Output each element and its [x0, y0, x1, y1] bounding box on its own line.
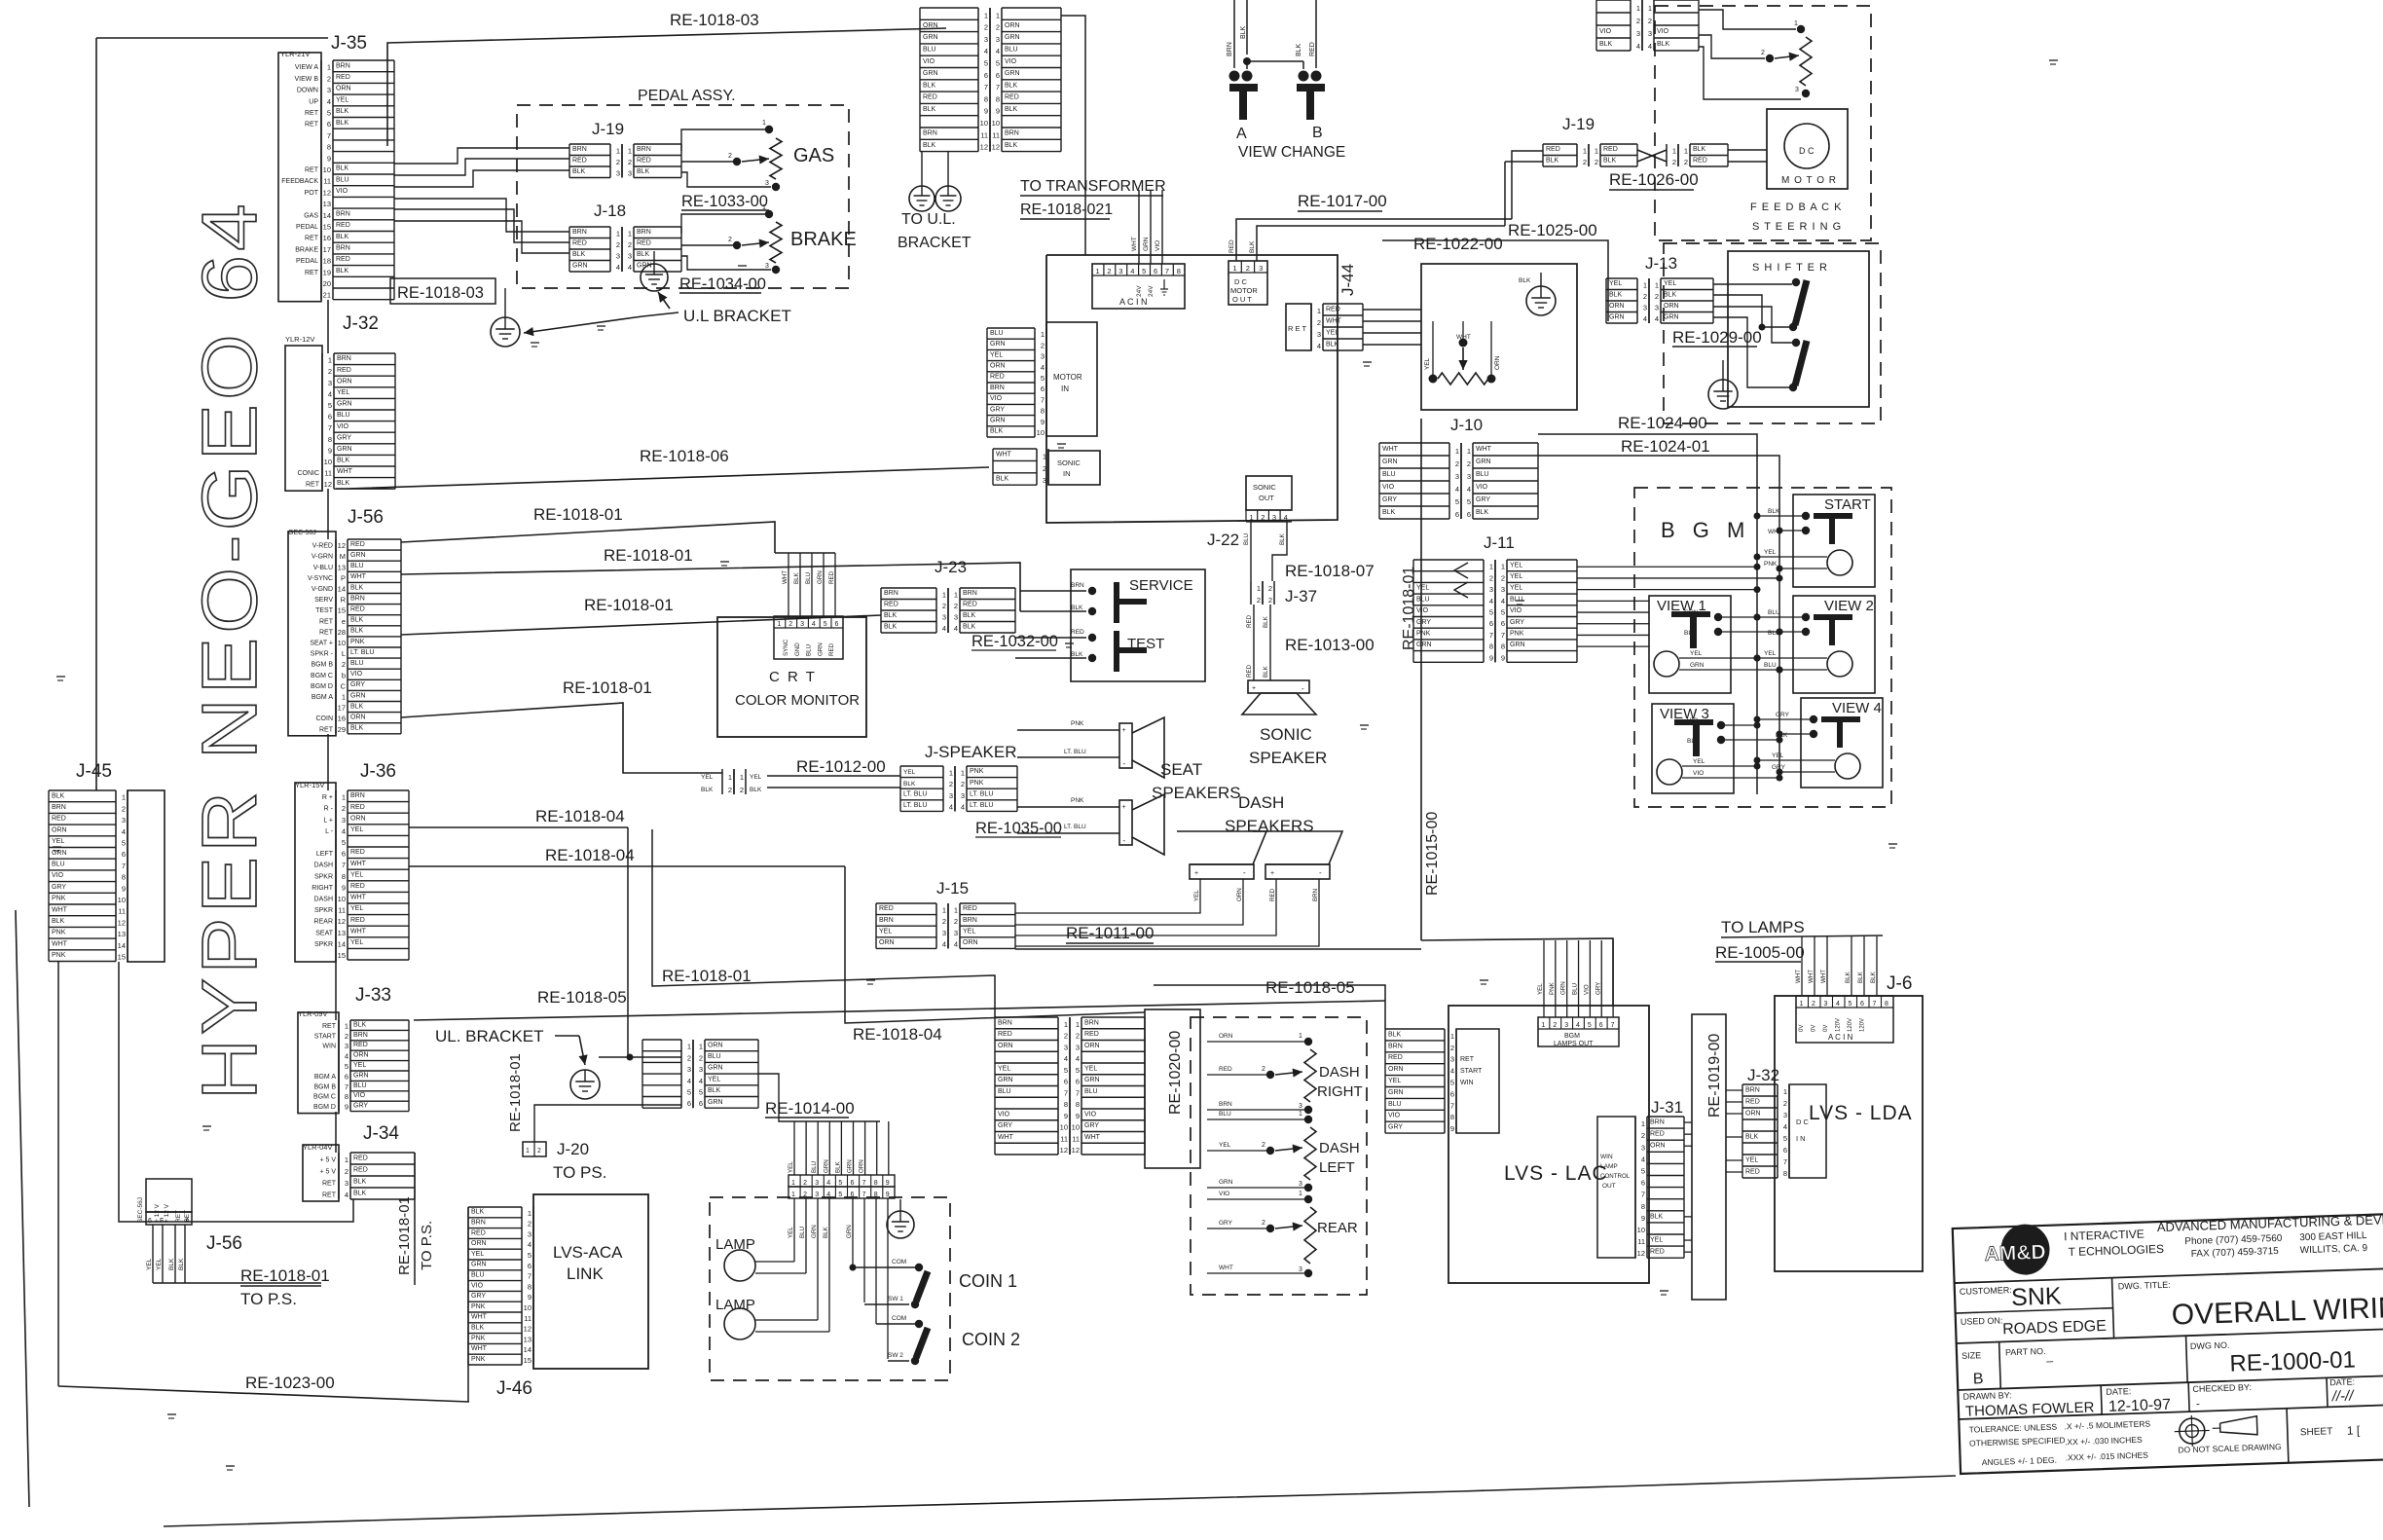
svg-text:D C: D C — [1234, 277, 1248, 286]
connector SONIC OUT J-22 — [1246, 476, 1292, 510]
svg-text:BLK: BLK — [336, 234, 349, 240]
svg-text:D C: D C — [1796, 1118, 1810, 1126]
svg-text:TO TRANSFORMER: TO TRANSFORMER — [1020, 178, 1166, 195]
svg-text:VIO: VIO — [1583, 984, 1590, 995]
svg-text:9: 9 — [1501, 653, 1505, 662]
svg-text:RET: RET — [319, 618, 334, 625]
svg-text:4: 4 — [954, 624, 958, 633]
svg-text:2: 2 — [342, 804, 346, 813]
svg-text:0V: 0V — [1823, 1025, 1829, 1032]
svg-text:BLK: BLK — [1745, 1133, 1759, 1140]
svg-text:5: 5 — [1641, 1167, 1645, 1176]
svg-text:b: b — [342, 671, 346, 679]
svg-text:ORN: ORN — [998, 1043, 1013, 1049]
svg-text:6: 6 — [1599, 1022, 1603, 1029]
wire J-45 drop right to frame — [119, 962, 353, 1222]
svg-text:1: 1 — [996, 11, 1000, 19]
svg-text:BLK: BLK — [168, 1258, 175, 1270]
svg-text:1: 1 — [616, 230, 620, 238]
svg-text:1: 1 — [728, 773, 732, 782]
svg-text:BGM A: BGM A — [314, 1074, 337, 1081]
svg-text:I NTERACTIVE: I NTERACTIVE — [2064, 1228, 2145, 1244]
svg-text:_: _ — [2045, 1349, 2053, 1363]
svg-text:LT. BLU: LT. BLU — [1064, 824, 1086, 830]
svg-text:RE-1022-00: RE-1022-00 — [1413, 235, 1503, 253]
svg-text:GAS: GAS — [304, 212, 318, 219]
svg-text:3: 3 — [765, 180, 769, 187]
svg-text:VIO: VIO — [336, 188, 348, 195]
svg-text:VIEW 4: VIEW 4 — [1832, 700, 1882, 716]
svg-text:BLK: BLK — [336, 165, 349, 172]
svg-text:YEL: YEL — [350, 939, 363, 946]
svg-text:13: 13 — [524, 1335, 532, 1343]
svg-text:WIN: WIN — [1460, 1080, 1474, 1086]
svg-text:YEL: YEL — [1388, 1078, 1401, 1084]
svg-text:RE-1014-00: RE-1014-00 — [765, 1099, 855, 1118]
svg-text:0V: 0V — [1812, 1025, 1817, 1032]
svg-text:6: 6 — [148, 1218, 152, 1225]
box RE-1020-00 harness — [1145, 1009, 1200, 1168]
svg-text:WHT: WHT — [52, 906, 68, 913]
svg-text:BLU: BLU — [52, 861, 65, 867]
svg-text:BLU: BLU — [353, 1082, 367, 1089]
connector steering 4-pin — [1630, 0, 1631, 51]
svg-text:RE-1018-06: RE-1018-06 — [640, 447, 729, 465]
svg-text:3: 3 — [1118, 267, 1122, 275]
svg-text:1: 1 — [1076, 1020, 1080, 1029]
svg-text:REAR: REAR — [1317, 1220, 1358, 1236]
svg-text:USED ON:: USED ON: — [1961, 1315, 2003, 1326]
svg-text:7: 7 — [1450, 1101, 1454, 1110]
switch COIN 2 — [876, 1323, 915, 1325]
svg-text:13: 13 — [323, 200, 331, 208]
svg-text:1: 1 — [954, 591, 958, 600]
svg-text:BLK: BLK — [750, 787, 762, 793]
svg-text:U.L BRACKET: U.L BRACKET — [683, 307, 791, 325]
svg-text:P: P — [341, 573, 346, 582]
svg-text:RE-1005-00: RE-1005-00 — [1715, 943, 1805, 962]
assembly FEEDBACK STEERING dashed box — [1655, 6, 1871, 240]
svg-text:3: 3 — [815, 1180, 819, 1187]
svg-text:RIGHT: RIGHT — [312, 885, 334, 892]
svg-text:GRN: GRN — [1382, 458, 1398, 465]
svg-text:1: 1 — [740, 773, 744, 782]
svg-text:GRN: GRN — [817, 570, 824, 584]
wire trunk to LVS-LAC — [1421, 938, 1613, 1006]
svg-text:HYPER NEO-GEO 64: HYPER NEO-GEO 64 — [186, 200, 273, 1100]
svg-text:5: 5 — [528, 1251, 532, 1260]
svg-text:RE-1018-03: RE-1018-03 — [670, 11, 759, 29]
svg-text:-: - — [1243, 868, 1246, 877]
svg-text:28: 28 — [338, 628, 346, 637]
svg-text:J-15: J-15 — [936, 879, 969, 898]
svg-text:RE-1029-00: RE-1029-00 — [1672, 328, 1762, 347]
svg-text:J-23: J-23 — [935, 558, 967, 576]
svg-text:DASH: DASH — [1319, 1140, 1360, 1156]
svg-text:BLK: BLK — [963, 612, 976, 619]
svg-text:PNK: PNK — [970, 768, 984, 775]
wire BGM lamps feed — [1543, 940, 1545, 1017]
svg-text:YEL: YEL — [1326, 329, 1338, 336]
svg-text:5: 5 — [345, 1062, 348, 1071]
svg-text:YEL: YEL — [1537, 983, 1544, 995]
svg-text:5: 5 — [342, 838, 346, 847]
svg-text:ORN: ORN — [336, 86, 351, 92]
svg-text:3: 3 — [1043, 476, 1046, 485]
svg-text:BLK: BLK — [337, 480, 350, 487]
svg-text:RE-1020-00: RE-1020-00 — [1167, 1031, 1184, 1115]
connector LVS-ACA 15-pin — [468, 1206, 522, 1208]
button VIEW 4 — [1801, 698, 1883, 788]
connector 2-pin speaker plug — [721, 769, 723, 794]
svg-text:PNK: PNK — [350, 639, 365, 645]
box SERVICE TEST — [1071, 569, 1205, 681]
svg-text:GRN: GRN — [708, 1099, 723, 1106]
svg-text:4: 4 — [1655, 314, 1659, 323]
svg-text:BLU: BLU — [1005, 47, 1018, 54]
svg-text:12: 12 — [324, 480, 332, 489]
svg-text:1: 1 — [1043, 452, 1046, 460]
button VIEW 2 — [1793, 596, 1875, 693]
ground coin door — [887, 1211, 914, 1238]
svg-text:5: 5 — [824, 621, 827, 628]
svg-text:1: 1 — [762, 120, 766, 127]
svg-text:BLK: BLK — [923, 82, 936, 89]
connector MOTOR IN — [1046, 322, 1097, 436]
svg-text:RED: RED — [637, 240, 651, 247]
svg-text:9: 9 — [122, 884, 126, 893]
svg-text:2: 2 — [1262, 1142, 1265, 1149]
svg-text:2: 2 — [1783, 1099, 1787, 1108]
svg-text:J-18: J-18 — [594, 202, 626, 220]
connector 9-pin coin header — [788, 1175, 895, 1187]
svg-text:J-34: J-34 — [363, 1123, 399, 1144]
svg-text:3: 3 — [1648, 29, 1652, 38]
svg-text:2: 2 — [1583, 158, 1587, 166]
svg-text:J-SPEAKER: J-SPEAKER — [925, 743, 1016, 761]
wire left frame vertical — [95, 38, 97, 790]
svg-text:YEL: YEL — [337, 389, 349, 396]
svg-text:6: 6 — [1154, 267, 1157, 275]
svg-text:4: 4 — [961, 802, 965, 811]
svg-text:2: 2 — [954, 602, 958, 610]
svg-text:PNK: PNK — [1071, 797, 1084, 804]
svg-text:4: 4 — [996, 47, 1000, 55]
svg-text:YEL: YEL — [963, 928, 975, 935]
svg-text:BLK: BLK — [1546, 158, 1559, 165]
svg-text:9: 9 — [1076, 1112, 1080, 1120]
svg-text:YEL: YEL — [708, 1076, 720, 1082]
svg-text:VIEW CHANGE: VIEW CHANGE — [1238, 144, 1345, 161]
svg-text:1: 1 — [1317, 307, 1321, 315]
svg-text:3: 3 — [1317, 330, 1321, 339]
svg-text:7: 7 — [528, 1272, 532, 1281]
svg-text:GRN: GRN — [998, 1077, 1013, 1083]
svg-text:BLK: BLK — [1296, 43, 1302, 56]
svg-text:4: 4 — [1576, 1022, 1580, 1029]
svg-text:300 EAST HILL: 300 EAST HILL — [2299, 1230, 2367, 1243]
svg-text:BRN: BRN — [336, 62, 350, 69]
svg-text:RE-1018-04: RE-1018-04 — [545, 846, 635, 864]
svg-text:LVS-ACA: LVS-ACA — [553, 1243, 623, 1262]
svg-text:12: 12 — [338, 917, 346, 926]
svg-text:2: 2 — [1655, 292, 1659, 301]
svg-text:PEDAL: PEDAL — [296, 258, 318, 265]
svg-text:BLU: BLU — [811, 1161, 818, 1173]
svg-text:4: 4 — [1643, 314, 1647, 323]
svg-text:11: 11 — [980, 130, 988, 139]
svg-text:GRN: GRN — [811, 1225, 818, 1238]
svg-text:6: 6 — [1783, 1146, 1787, 1155]
svg-text:RET: RET — [1460, 1056, 1475, 1063]
wire RET to RE-1022 box — [1363, 309, 1421, 311]
svg-text:4: 4 — [1317, 342, 1321, 350]
svg-text:5: 5 — [328, 401, 332, 410]
svg-text:ORN: ORN — [52, 826, 67, 833]
svg-text:YEL: YEL — [998, 1065, 1010, 1072]
svg-text:-: - — [1301, 684, 1304, 693]
svg-text:BLU: BLU — [337, 412, 350, 419]
wire SEC-56J drops — [152, 1225, 154, 1283]
svg-text:RED: RED — [828, 642, 835, 656]
svg-text:WHT: WHT — [1820, 970, 1827, 983]
svg-text:3: 3 — [327, 86, 331, 94]
wire page bottom edge — [164, 1476, 1956, 1526]
svg-text:1: 1 — [1672, 147, 1676, 156]
svg-text:YEL: YEL — [471, 1251, 484, 1258]
connector J-SPEAKER — [942, 766, 944, 811]
svg-text:5: 5 — [1041, 374, 1045, 383]
svg-text:PNK: PNK — [471, 1335, 486, 1341]
svg-text:BLK: BLK — [1657, 41, 1670, 48]
svg-text:RED: RED — [1071, 629, 1084, 636]
svg-text:A: A — [185, 1218, 190, 1225]
svg-text:VIO: VIO — [1599, 28, 1612, 35]
svg-text:RED: RED — [350, 605, 365, 612]
svg-text:BRN: BRN — [1227, 42, 1233, 56]
svg-text:1: 1 — [954, 906, 958, 915]
svg-text:2: 2 — [1648, 17, 1652, 25]
svg-text:1: 1 — [1800, 1001, 1804, 1008]
svg-text:GRN: GRN — [823, 1159, 829, 1173]
wire transformer leads — [1138, 190, 1140, 264]
svg-text:RED: RED — [350, 541, 365, 548]
svg-text:4: 4 — [812, 621, 816, 628]
svg-text:RE-1018-01: RE-1018-01 — [662, 967, 752, 985]
svg-text:GRN: GRN — [708, 1065, 723, 1072]
svg-text:-: - — [2196, 1397, 2200, 1411]
svg-text:2: 2 — [537, 1148, 541, 1155]
svg-text:BLU: BLU — [471, 1271, 485, 1278]
svg-text:PEDAL ASSY.: PEDAL ASSY. — [638, 88, 736, 104]
svg-text:BLU: BLU — [1084, 1088, 1098, 1095]
svg-text:GRY: GRY — [1416, 619, 1431, 626]
assembly coin door dashed box — [710, 1197, 950, 1380]
svg-text:SEC-56J: SEC-56J — [137, 1197, 144, 1223]
svg-text:3: 3 — [954, 929, 958, 937]
svg-text:2: 2 — [1501, 573, 1505, 582]
svg-text:1: 1 — [345, 1155, 348, 1164]
svg-text:DATE:: DATE: — [2329, 1376, 2355, 1387]
svg-text:1: 1 — [526, 1148, 530, 1155]
svg-text:20: 20 — [323, 279, 331, 288]
svg-text:1: 1 — [1064, 1020, 1068, 1029]
svg-text:COM: COM — [892, 1259, 906, 1265]
svg-text:BLU: BLU — [708, 1053, 721, 1060]
svg-text:GRN: GRN — [990, 341, 1006, 348]
svg-text:J-32: J-32 — [343, 313, 379, 334]
svg-text:6: 6 — [1467, 510, 1471, 519]
svg-text:VIO: VIO — [337, 423, 349, 430]
svg-text:13: 13 — [118, 930, 126, 938]
svg-text:BLK: BLK — [336, 268, 349, 275]
svg-text:IN: IN — [1063, 469, 1071, 478]
svg-text:PNK: PNK — [1416, 630, 1431, 637]
svg-text:GRN: GRN — [350, 692, 366, 699]
svg-text:MOTOR: MOTOR — [1053, 373, 1082, 382]
svg-text:5: 5 — [1064, 1066, 1068, 1075]
svg-text:1: 1 — [984, 11, 988, 19]
svg-text:BLU: BLU — [799, 1227, 806, 1238]
svg-text:BLK: BLK — [336, 120, 349, 127]
svg-text:7: 7 — [1041, 395, 1045, 404]
svg-text:PNK: PNK — [1071, 720, 1084, 727]
svg-text:BRN: BRN — [52, 804, 66, 811]
wire J-22 to J-37 — [1250, 522, 1252, 581]
svg-text:GRN: GRN — [1560, 981, 1567, 995]
svg-text:2: 2 — [1246, 264, 1250, 273]
svg-text:BLK: BLK — [1650, 1213, 1664, 1220]
svg-text:BRN: BRN — [1005, 130, 1019, 137]
svg-text:RET: RET — [319, 629, 334, 636]
svg-text:VIO: VIO — [1219, 1191, 1229, 1197]
svg-text:11: 11 — [524, 1314, 532, 1323]
svg-text:2: 2 — [942, 917, 946, 926]
wire harness RE-1024-01 — [1538, 456, 1779, 769]
svg-text:CUSTOMER:: CUSTOMER: — [1960, 1285, 2012, 1297]
svg-text:YEL: YEL — [1510, 573, 1522, 580]
svg-text:10: 10 — [1037, 428, 1045, 437]
svg-text:DWG. TITLE:: DWG. TITLE: — [2118, 1280, 2171, 1292]
svg-text:5: 5 — [1467, 497, 1471, 506]
svg-text:ORN: ORN — [353, 1052, 369, 1059]
svg-text:3: 3 — [954, 613, 958, 622]
svg-text:2: 2 — [1761, 50, 1765, 56]
svg-text:8: 8 — [874, 1180, 878, 1187]
svg-text:RED: RED — [52, 816, 66, 823]
svg-text:5: 5 — [687, 1088, 691, 1097]
svg-text:6: 6 — [835, 621, 839, 628]
svg-text:BLK: BLK — [1005, 142, 1018, 149]
svg-text:1: 1 — [342, 793, 346, 802]
svg-text:2: 2 — [345, 1032, 348, 1041]
svg-text:BLK: BLK — [963, 624, 976, 631]
svg-text:4: 4 — [345, 1191, 348, 1199]
svg-text:2: 2 — [1268, 596, 1272, 605]
svg-text:6: 6 — [528, 1262, 532, 1270]
svg-text:19: 19 — [323, 268, 331, 276]
svg-text:RED: RED — [1309, 42, 1316, 56]
svg-text:YEL: YEL — [1193, 890, 1200, 901]
svg-text:7: 7 — [1783, 1157, 1787, 1166]
svg-text:BLK: BLK — [1388, 1031, 1402, 1038]
svg-text:9: 9 — [327, 154, 331, 163]
svg-text:SPEAKERS: SPEAKERS — [1152, 784, 1241, 802]
svg-text:YEL: YEL — [1745, 1156, 1758, 1163]
svg-text:J-37: J-37 — [1285, 587, 1317, 605]
connector AC IN (LVS-LDA) — [1796, 996, 1893, 1043]
svg-text:B G M: B G M — [1661, 518, 1750, 542]
svg-text:8: 8 — [1501, 642, 1505, 651]
svg-text:ORN: ORN — [1219, 1033, 1233, 1040]
svg-text:RE-1018-01: RE-1018-01 — [584, 596, 674, 614]
svg-text:J-20: J-20 — [557, 1140, 589, 1158]
svg-text:S T E E R I N G: S T E E R I N G — [1752, 221, 1842, 233]
svg-text:BLK: BLK — [350, 617, 364, 624]
svg-text:2: 2 — [1641, 1131, 1645, 1140]
motor DC feedback steering — [1767, 109, 1848, 189]
svg-text:A C I N: A C I N — [1119, 297, 1148, 307]
svg-text:RED: RED — [350, 849, 365, 856]
svg-text:BLK: BLK — [884, 624, 898, 631]
svg-text:RED: RED — [1084, 1031, 1099, 1038]
svg-text:L -: L - — [325, 828, 334, 835]
svg-text:RE-1011-00: RE-1011-00 — [1066, 924, 1154, 942]
svg-text:BGM D: BGM D — [311, 683, 333, 690]
svg-text:GRY: GRY — [1219, 1220, 1233, 1227]
svg-text:WHT: WHT — [1131, 237, 1138, 251]
svg-text:RE-1018-04: RE-1018-04 — [535, 807, 625, 825]
svg-text:1: 1 — [1794, 20, 1798, 27]
svg-text:VIO: VIO — [52, 872, 64, 879]
svg-text:BRN: BRN — [1650, 1119, 1665, 1126]
svg-text:B: B — [1973, 1371, 1984, 1387]
svg-text:RET: RET — [322, 1181, 337, 1188]
svg-text:1: 1 — [1041, 330, 1045, 339]
svg-text:RED: RED — [336, 256, 350, 263]
wire harness RE-1018-04 no.1 — [409, 826, 628, 828]
svg-text:BLK: BLK — [353, 1190, 367, 1196]
svg-text:START: START — [1824, 496, 1871, 513]
svg-text:3: 3 — [984, 35, 988, 44]
wire service/test feeds — [1020, 590, 1086, 592]
svg-text:11: 11 — [324, 469, 332, 478]
svg-text:START: START — [1460, 1068, 1483, 1075]
svg-text:3: 3 — [122, 816, 126, 825]
svg-text:BLK: BLK — [1664, 292, 1677, 299]
connector WIN LAMP CONTROL OUT — [1597, 1117, 1635, 1258]
svg-text:BRN: BRN — [572, 146, 587, 153]
svg-text:4: 4 — [1501, 597, 1505, 605]
svg-text:YEL: YEL — [350, 826, 363, 833]
wire UL bracket drop — [627, 827, 629, 1057]
svg-text:M O T O R: M O T O R — [1781, 175, 1837, 186]
svg-text:5: 5 — [1142, 267, 1146, 275]
wire harness RE-1023-00 — [58, 1386, 469, 1402]
svg-text:BLK: BLK — [1857, 971, 1864, 983]
svg-text:VIO: VIO — [1416, 607, 1429, 614]
svg-text:BLK: BLK — [884, 612, 898, 619]
svg-text:2: 2 — [1076, 1032, 1080, 1041]
wire page edge left slant — [16, 910, 29, 1507]
svg-text:6: 6 — [699, 1099, 703, 1108]
svg-text:8: 8 — [984, 94, 988, 103]
svg-text:1: 1 — [1595, 147, 1598, 156]
switch shifter 2 — [1792, 339, 1800, 347]
svg-text:GND: GND — [794, 642, 801, 656]
svg-text:RET: RET — [305, 236, 319, 242]
svg-text:RE-1018-03: RE-1018-03 — [397, 284, 484, 302]
